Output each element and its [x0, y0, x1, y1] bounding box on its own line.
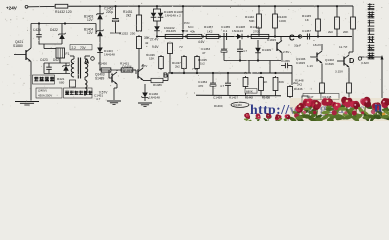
svg-text:250: 250: [130, 32, 135, 36]
resistor R1451 2k2: [123, 6, 142, 35]
resistor R1453: [98, 62, 112, 73]
svg-text:12V: 12V: [87, 31, 94, 35]
wire B bus: [168, 72, 292, 74]
label C1815: [267, 38, 276, 42]
svg-text:40k: 40k: [190, 29, 195, 33]
scan speckle noise: [1, 0, 389, 107]
capacitor C424: [33, 24, 42, 45]
label R1456 40k: [188, 25, 195, 33]
svg-text:R1460: R1460: [214, 104, 223, 108]
svg-text:M.C: M.C: [188, 25, 194, 29]
potentiometer W1405: [164, 30, 185, 39]
resistor R1441: [250, 34, 270, 38]
node A: [84, 57, 94, 66]
resistor R1446: [288, 81, 303, 98]
svg-text:R1460: R1460: [234, 103, 243, 107]
label vertical remote control input text: [368, 3, 375, 59]
svg-text:A1013: A1013: [123, 69, 132, 73]
resistor R1457: [205, 34, 220, 38]
label 680K box: [245, 89, 257, 94]
svg-text:42: 42: [145, 41, 149, 45]
resistor R421 680: [57, 77, 76, 87]
svg-text:R1457: R1457: [204, 25, 213, 29]
svg-text:D1409: D1409: [262, 48, 271, 52]
labels C1455 D1408: [221, 25, 245, 33]
watermark url tail letter n: [374, 100, 382, 116]
background scan paper: [0, 0, 389, 121]
inductor lower winding: [85, 77, 87, 96]
wire lower row bottom: [44, 63, 70, 74]
label B1404 12V: [84, 28, 94, 36]
node B: [163, 71, 173, 80]
resistor R1449 2k0: [335, 6, 340, 36]
svg-text:1K2: 1K2: [207, 29, 213, 33]
label D1430: [149, 92, 160, 100]
capacitor C1455 inline: [224, 33, 227, 40]
wire loop horizontal: [224, 60, 281, 62]
svg-text:2k2: 2k2: [293, 81, 298, 85]
diode D1408 inline: [227, 34, 248, 39]
svg-text:R1438: R1438: [262, 96, 270, 100]
capacitor C423: [40, 58, 52, 74]
resistor R1431: [120, 62, 134, 73]
wire x139 down: [138, 50, 140, 70]
svg-text:R1446: R1446: [294, 87, 303, 91]
svg-text:20K: 20K: [343, 30, 348, 34]
transistor Q421 S1880: [14, 48, 31, 62]
label R1436 15K: [146, 53, 155, 61]
diode D1409: [255, 40, 271, 61]
wire lower row top: [44, 58, 70, 63]
label C1451: [94, 94, 103, 102]
transformer T421: [70, 56, 90, 79]
resistor R1439 100K: [273, 6, 288, 36]
resistor R1442a: [243, 76, 248, 96]
label 0.57V: [99, 91, 108, 95]
watermark flower border: [243, 97, 389, 127]
svg-text:27.4V: 27.4V: [150, 38, 159, 42]
label box 430A 250V: [36, 88, 62, 98]
label 33uF: [294, 44, 301, 48]
diodes D1405 D1406: [151, 6, 164, 23]
svg-text:B: B: [163, 71, 168, 80]
wire degauss top: [31, 23, 96, 25]
label 9.6V: [152, 45, 159, 49]
ground D1430: [138, 103, 152, 107]
label 2.2/70V box: [70, 45, 92, 50]
svg-text:9.6V: 9.6V: [152, 45, 159, 49]
svg-text:S1880: S1880: [13, 44, 23, 48]
resistor R1445: [316, 6, 321, 36]
svg-text:C1459: C1459: [213, 96, 222, 100]
junction dots mid bus: [156, 35, 319, 37]
svg-text:0.57V: 0.57V: [99, 91, 108, 95]
label 1.1V: [307, 64, 313, 68]
svg-text:18.2V: 18.2V: [313, 43, 322, 47]
resistor R1447 body: [320, 81, 325, 97]
capacitor C1453 47uF: [201, 37, 227, 61]
label Q1406: [296, 57, 306, 65]
label 39K: [144, 36, 151, 40]
svg-text:C1815: C1815: [267, 38, 276, 42]
svg-text:R1432 120: R1432 120: [55, 10, 72, 14]
svg-text:C1456: C1456: [281, 59, 290, 63]
node D: [349, 56, 362, 65]
labels bottom row: [213, 96, 270, 100]
wire D1407 to bus: [156, 34, 158, 37]
resistor R1435: [195, 55, 207, 73]
transistor Q1403: [109, 70, 117, 88]
label Q1402: [325, 58, 334, 66]
diode D1407: [154, 21, 189, 34]
label 4.6V: [198, 40, 205, 44]
svg-text:50K: 50K: [249, 19, 255, 23]
svg-text:12V: 12V: [87, 18, 94, 22]
transistor Q1402: [337, 44, 353, 81]
svg-text:4.6V: 4.6V: [198, 40, 205, 44]
label box field correction capacitor: [33, 75, 55, 84]
capacitor C1452 220u: [104, 6, 119, 33]
wire output right edge: [361, 55, 384, 98]
wire x100 to lower bus: [99, 56, 101, 70]
svg-text:47: 47: [202, 51, 206, 55]
wire +24V rail: [69, 5, 353, 7]
capacitor C1454 470uF: [198, 73, 216, 95]
svg-text:C1815: C1815: [296, 61, 305, 65]
resistor R1486: [151, 78, 163, 87]
svg-text:R1486: R1486: [153, 83, 162, 87]
wire x100 mid: [99, 40, 101, 44]
svg-text:W1405: W1405: [166, 29, 176, 33]
svg-text:430A 250V: 430A 250V: [38, 94, 52, 98]
node +24V input terminal: [6, 5, 28, 10]
svg-text:1N4148: 1N4148: [149, 96, 160, 100]
wire R1486 to bus: [163, 74, 168, 81]
svg-text:R1442: R1442: [245, 96, 253, 100]
junction dots loop: [239, 59, 259, 61]
svg-text:1.1V: 1.1V: [307, 64, 313, 68]
label box line correction capacitor: [64, 88, 93, 98]
label 3.15V: [335, 70, 344, 74]
svg-text:680: 680: [59, 81, 64, 85]
wire lower-left bus: [99, 69, 136, 71]
zener D1404: [96, 27, 103, 40]
diode D1401: [97, 44, 103, 56]
resistor R1438: [273, 76, 285, 96]
resistor R1450 20K rail end: [351, 6, 356, 52]
svg-text:+24V: +24V: [6, 6, 18, 11]
svg-text:S1489: S1489: [95, 76, 104, 80]
label 3.32V: [361, 61, 370, 65]
wire x183 from rail: [182, 6, 184, 30]
svg-text:0.1: 0.1: [223, 29, 228, 33]
resistor R1442: [259, 76, 269, 96]
label Q1403: [95, 73, 105, 81]
svg-text:1N4143: 1N4143: [232, 29, 243, 33]
svg-text:C: C: [289, 34, 295, 43]
resistor R1446b 345: [302, 96, 315, 107]
svg-text:(240V): (240V): [38, 89, 47, 93]
label D1401: [104, 49, 115, 57]
label R1445 1K: [302, 14, 311, 22]
wire bottom rail left end: [195, 73, 197, 95]
svg-text:D421: D421: [53, 58, 61, 62]
wire Q421 collector up: [30, 24, 32, 49]
label Q421: [13, 40, 23, 48]
svg-text:R1252: R1252: [119, 32, 128, 36]
label Q1404: [122, 65, 132, 73]
svg-text:3.32V: 3.32V: [361, 61, 370, 65]
svg-text:220μ: 220μ: [106, 10, 113, 14]
watermark url text http://wo: [250, 102, 307, 117]
wire degauss mid: [39, 44, 62, 49]
svg-text:n: n: [374, 100, 382, 116]
svg-text:D422: D422: [50, 28, 58, 32]
svg-text:4.7: 4.7: [220, 84, 225, 88]
svg-text:70V: 70V: [80, 46, 87, 50]
junction dots on +24V rail: [99, 5, 338, 7]
capacitor C1457: [301, 34, 316, 40]
label R1460: [214, 104, 223, 108]
svg-text:C423: C423: [40, 58, 48, 62]
resistor R1437: [172, 55, 186, 73]
diode D422: [50, 24, 66, 45]
svg-text:2k2: 2k2: [126, 14, 131, 18]
wire stub R1436: [160, 70, 162, 73]
svg-text:R1457: R1457: [229, 96, 238, 100]
wire bottom rail: [196, 94, 281, 97]
svg-text:680K: 680K: [246, 89, 253, 93]
resistor R1432 120: [54, 4, 72, 14]
resistor R1440 50K: [245, 6, 261, 36]
watermark url middle letters under flowers: [305, 101, 366, 116]
svg-text:1N4148 x 2: 1N4148 x 2: [165, 14, 181, 18]
label R1448 2K2: [295, 79, 304, 87]
junction dots B bus: [183, 72, 277, 74]
svg-text:33μF: 33μF: [294, 44, 301, 48]
wires loop verticals: [249, 61, 270, 74]
svg-text:2.2: 2.2: [72, 46, 77, 50]
label B1403 12V: [84, 15, 94, 23]
label R1457 1K2: [204, 25, 213, 33]
wire x170 down: [169, 55, 171, 73]
wire C1452 bottom stub: [110, 32, 121, 34]
svg-text:30K: 30K: [279, 80, 285, 84]
resistor R1456: [186, 34, 203, 38]
labels voltages: [313, 43, 348, 49]
svg-text:2k2: 2k2: [175, 65, 180, 69]
node C: [289, 34, 302, 43]
capacitor C1458: [237, 37, 247, 61]
diode D421: [53, 58, 70, 74]
transistor Q1404: [134, 64, 148, 80]
svg-text:15K: 15K: [149, 57, 154, 61]
svg-text:1N4148: 1N4148: [104, 53, 115, 57]
svg-text:470: 470: [198, 84, 203, 88]
wire rail left segment: [28, 5, 54, 7]
thermistor R1460 oval: [231, 102, 249, 107]
svg-text:7.7V: 7.7V: [141, 64, 148, 68]
svg-text:F1: F1: [66, 52, 70, 56]
resistor R1452: [137, 35, 149, 50]
labels 2k0 20K: [328, 30, 348, 34]
fuse F1: [56, 48, 70, 58]
junction dots degauss top: [38, 22, 66, 24]
label C1457: [302, 29, 311, 33]
ground left: [15, 102, 39, 106]
zener D1403: [96, 6, 103, 27]
svg-text:1k2: 1k2: [200, 62, 205, 66]
label 27.4V: [150, 38, 159, 42]
resistor R1454: [168, 42, 184, 56]
resistor R1448 body: [347, 81, 352, 97]
label R1252 250: [119, 32, 135, 36]
label 7.1V: [192, 67, 199, 71]
svg-text:7.1V: 7.1V: [192, 67, 199, 71]
svg-text:2.5V: 2.5V: [283, 50, 290, 54]
zener D1430: [141, 84, 148, 101]
labels R1447 R1448: [303, 94, 339, 100]
label D1405 D1406: [164, 10, 183, 18]
ground Q1403 emitter: [107, 88, 121, 105]
svg-text:4.7: 4.7: [96, 97, 101, 101]
svg-text:270K: 270K: [253, 29, 261, 33]
wire degauss right down: [95, 24, 97, 35]
svg-text:4.7: 4.7: [243, 49, 247, 53]
transistor Q1401: [277, 37, 290, 61]
wire stubs above: [184, 47, 197, 55]
svg-text:R1450: R1450: [98, 62, 107, 66]
svg-text:3.15V: 3.15V: [335, 70, 344, 74]
wire Q421 emitter down: [30, 62, 32, 101]
svg-text:2k0: 2k0: [328, 30, 333, 34]
label W1405: [166, 29, 189, 33]
label R1441 270K: [250, 25, 261, 33]
transistor Q1406: [310, 37, 322, 82]
capacitor C1456: [274, 59, 292, 85]
wire Q1404 emitter: [143, 79, 151, 82]
wire mid bus: [157, 36, 352, 38]
svg-text:C424: C424: [33, 28, 41, 32]
resistor R1436: [159, 55, 164, 70]
capacitor C1460: [220, 73, 231, 96]
